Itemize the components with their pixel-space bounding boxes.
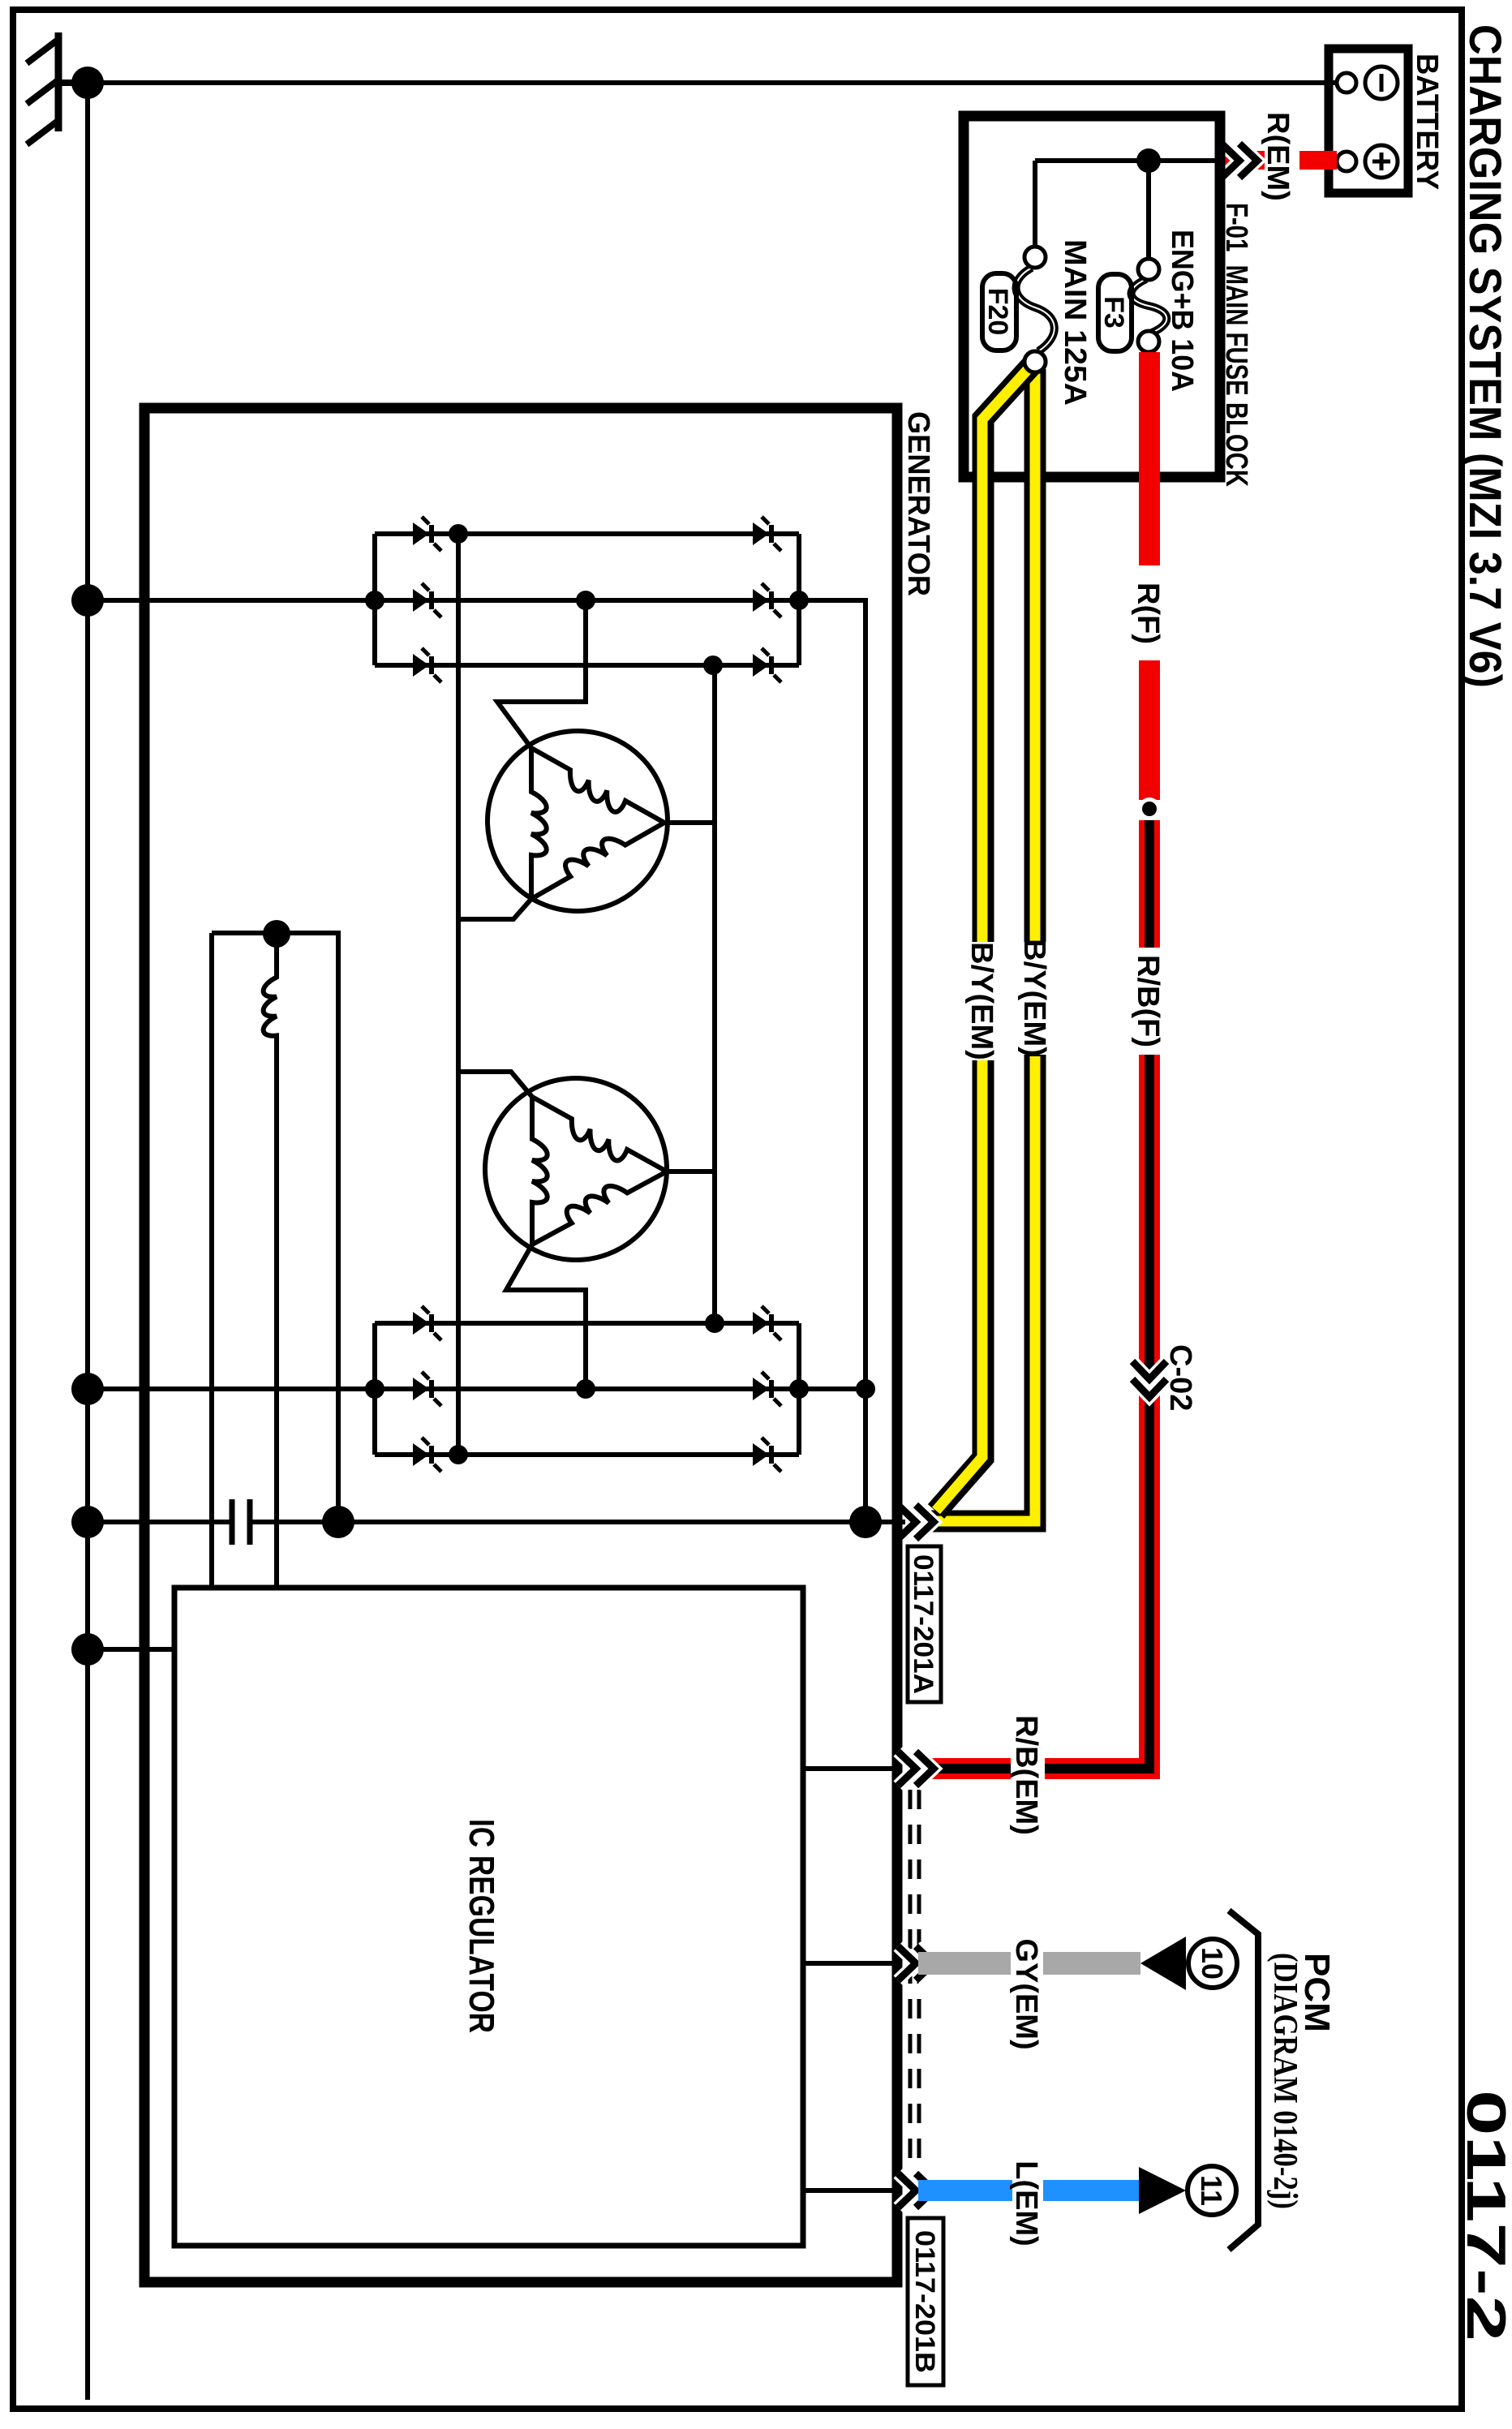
connector chevron GY(EM) [898, 1946, 934, 1980]
wire bridge2 top rail [797, 1323, 801, 1455]
label IC REGULATOR [462, 1819, 501, 2033]
svg-text:R(EM): R(EM) [1261, 112, 1295, 201]
diode bridge2 C upper [753, 1438, 781, 1472]
svg-text:(DIAGRAM 0140-2j): (DIAGRAM 0140-2j) [1266, 1953, 1304, 2209]
wire B/Y(EM) lower segment 2 [936, 1060, 983, 1511]
wire IC regulator ground [88, 1647, 174, 1652]
IC regulator box [174, 1588, 803, 2246]
fuse F3 element [1132, 279, 1167, 333]
connector chevron C-02 [1132, 1361, 1166, 1397]
svg-text:B/Y(EM): B/Y(EM) [1017, 939, 1051, 1057]
stator winding 1 circle [488, 731, 668, 911]
label F-01 MAIN FUSE BLOCK [1219, 203, 1253, 487]
connector dashed line 0117-201 [910, 1790, 919, 2169]
page number 0117-2 [1455, 2090, 1512, 2341]
node bridge1 phase A [449, 524, 468, 544]
wire phase tap y1142 right [506, 1245, 586, 1389]
label GY(EM) [1009, 1938, 1043, 2049]
node fuse block junction [1136, 148, 1161, 173]
title text CHARGING SYSTEM [1460, 24, 1511, 688]
label GENERATOR [901, 411, 935, 596]
diode bridge2 A lower [413, 1306, 441, 1340]
svg-text:11: 11 [1195, 2175, 1228, 2206]
node IC regulator ground junction [71, 1633, 104, 1666]
wire B/Y(EM) upper segment 1 [1024, 369, 1046, 942]
wire tap to stator1 bottom-right [458, 899, 531, 919]
svg-text:GENERATOR: GENERATOR [901, 411, 935, 596]
wire L(EM) lower segment [918, 2180, 1012, 2201]
fuse F20 left terminal [1024, 247, 1046, 268]
diode bridge1 A upper [753, 517, 781, 551]
node bridge2 phase B [576, 1379, 595, 1399]
node bridge2 ground bus junction [71, 1373, 104, 1405]
wire phase tap y983 [712, 665, 717, 1323]
node bridge1 ground bus junction [71, 584, 104, 617]
node bridge2 bottom rail junction [365, 1379, 384, 1399]
fuse F20 right terminal ring [1024, 351, 1046, 372]
node splice on red wire [1138, 797, 1161, 820]
label DIAGRAM 0140-2j [1266, 1953, 1304, 2209]
ground symbol [27, 32, 88, 144]
node bridge1 top rail junction [789, 591, 809, 610]
label box 0117-201A [908, 1546, 941, 1702]
node B+ top junction [849, 1506, 882, 1538]
wire R(EM) upper segment [1299, 151, 1337, 170]
fuse F20 element [1016, 268, 1055, 351]
node bridge2 B+ junction [856, 1379, 875, 1399]
wire R(F) segment 2 [1139, 660, 1160, 800]
svg-text:L(EM): L(EM) [1009, 2160, 1043, 2246]
connector chevron 0117-201A [898, 1505, 934, 1539]
PCM pin 10 circle [1188, 1939, 1237, 1988]
PCM bracket [1229, 1911, 1258, 2250]
stator1 winding left [531, 748, 664, 823]
wire bridge2 to ground bus [88, 1386, 375, 1391]
diode bridge1 B lower [413, 583, 441, 617]
rotor field winding [264, 934, 277, 1079]
wire bridge1 bottom rail [372, 534, 377, 665]
svg-text:F3: F3 [1098, 296, 1129, 329]
svg-text:F20: F20 [982, 288, 1013, 336]
battery label [1410, 54, 1444, 190]
wire bridge1 B+ riser [799, 600, 866, 1522]
wire IC pin GY stub [803, 1961, 902, 1966]
label R(EM) [1261, 112, 1295, 201]
arrow to pin 10 [1140, 1937, 1186, 1990]
wire B+ vertical lower [88, 1520, 230, 1524]
wire B/Y(EM) upper segment 2 [931, 1055, 1035, 1521]
node battery ground junction [71, 67, 104, 99]
diode bridge2 C lower [413, 1438, 441, 1472]
svg-text:B/Y(EM): B/Y(EM) [964, 942, 999, 1060]
label C-02 [1163, 1344, 1197, 1411]
label R(F) [1131, 583, 1165, 644]
fuse F3 left terminal [1138, 259, 1159, 280]
wire tap to stator1 apex [664, 820, 715, 825]
wire bridge2 phase line B [375, 1386, 799, 1391]
label B/Y(EM) upper [1017, 939, 1051, 1057]
battery minus symbol [1365, 67, 1398, 99]
node bridge1 phase C [703, 656, 723, 675]
label MAIN 125A [1058, 239, 1092, 406]
svg-text:BATTERY: BATTERY [1410, 54, 1444, 190]
wire bridge1 phase line A [375, 531, 799, 536]
label box F3 [1098, 274, 1132, 351]
wire rotor left vertical [212, 931, 341, 935]
wire bridge2 B+ riser [799, 1386, 866, 1391]
wire bridge1 to ground bus [88, 598, 375, 603]
node bridge2 phase C [449, 1445, 468, 1464]
wire bridge2 bottom rail [372, 1323, 377, 1455]
wire bridge1 top rail [797, 534, 801, 665]
wire ground bus [85, 83, 90, 2400]
fuse F3 right terminal [1138, 331, 1159, 352]
node bridge1 phase B [576, 591, 595, 610]
label L(EM) [1009, 2160, 1043, 2246]
diode bridge1 A lower [413, 517, 441, 551]
wire junction to fuse F20 [1035, 161, 1149, 248]
fuse F20 right terminal [1024, 351, 1046, 372]
generator box [144, 408, 897, 2282]
diode bridge1 B upper [753, 583, 781, 617]
svg-text:IC REGULATOR: IC REGULATOR [462, 1819, 501, 2033]
node rotor B+ junction [322, 1506, 354, 1538]
wire battery negative to ground bus [88, 80, 1337, 85]
stator winding 2 circle [485, 1078, 667, 1260]
wire R/B(F) segment 2 [1045, 1055, 1149, 1769]
wire IC pin R/B stub [803, 1766, 902, 1771]
connector chevron L(EM) [898, 2173, 934, 2208]
wire rotor coil to IC regulator [274, 1079, 279, 1588]
svg-text:0117-201A: 0117-201A [908, 1554, 939, 1694]
svg-text:R(F): R(F) [1131, 583, 1165, 644]
fuse block F-01 box [964, 116, 1220, 477]
diode bridge2 B lower [413, 1372, 441, 1406]
wire R(F) segment 1 [1139, 352, 1160, 565]
stator1 winding bottom [531, 748, 547, 899]
wire bridge1 phase line C [375, 663, 799, 668]
svg-text:10: 10 [1196, 1947, 1229, 1980]
wire GY(EM) lower segment [918, 1952, 1011, 1975]
svg-text:ENG+B 10A: ENG+B 10A [1165, 230, 1199, 392]
label R/B(EM) [1009, 1715, 1043, 1835]
svg-text:R/B(EM): R/B(EM) [1009, 1715, 1043, 1835]
label B/Y(EM) lower [964, 942, 999, 1060]
wire IC pin L stub [803, 2188, 902, 2193]
battery plus symbol [1365, 145, 1398, 178]
wire bridge2 phase line A [375, 1321, 799, 1326]
svg-text:GY(EM): GY(EM) [1009, 1938, 1043, 2049]
node bridge1 bottom rail junction [365, 591, 384, 610]
svg-text:0117-201B: 0117-201B [909, 2230, 940, 2373]
wire tap to stator2 bottom-left [458, 1072, 532, 1097]
wire R(EM) lower segment [1218, 151, 1265, 170]
diode bridge2 A upper [753, 1306, 781, 1340]
stator2 winding right [532, 1172, 667, 1245]
connector chevron F-01 on R(EM) [1222, 144, 1257, 178]
label box 0117-201B [908, 2218, 943, 2385]
stator1 winding right [531, 823, 664, 899]
battery box [1329, 49, 1408, 193]
wire bridge2 phase line C [375, 1452, 799, 1457]
svg-text:CHARGING SYSTEM (MZI 3.7 V6): CHARGING SYSTEM (MZI 3.7 V6) [1460, 24, 1511, 688]
label box F20 [982, 273, 1016, 350]
wire phase tap y1299 [456, 534, 461, 1455]
wire rotor bottom rail [209, 933, 214, 1588]
wire tap to stator2 apex [667, 1169, 715, 1174]
diode bridge1 C upper [753, 648, 781, 682]
node rotor junction [263, 920, 290, 948]
wire junction to fuse F3 [1146, 161, 1151, 260]
wire B+ vertical upper [252, 1520, 905, 1524]
connector chevron R/B(EM) [898, 1752, 934, 1786]
wire phase tap y1142 left [497, 600, 586, 748]
diode bridge2 B upper [753, 1372, 781, 1406]
wire L(EM) upper segment [1043, 2180, 1139, 2201]
PCM pin 11 circle [1188, 2166, 1236, 2215]
wire bridge1 phase line B [375, 598, 799, 603]
node bridge2 phase A [705, 1313, 724, 1333]
svg-text:MAIN 125A: MAIN 125A [1058, 239, 1092, 406]
label ENG+B 10A [1165, 230, 1199, 392]
stator2 winding left [532, 1097, 667, 1172]
svg-text:R/B(F): R/B(F) [1131, 955, 1165, 1047]
battery positive terminal [1337, 152, 1356, 171]
capacitor C1 [232, 1499, 250, 1545]
label R/B(F) [1131, 955, 1165, 1047]
battery negative terminal [1337, 73, 1356, 92]
wire rotor top rail [336, 933, 341, 1522]
wire fuse block entry [1149, 158, 1215, 163]
svg-text:C-02: C-02 [1163, 1344, 1197, 1411]
wire GY(EM) upper segment [1043, 1952, 1140, 1975]
wire R/B(EM) lower segment [918, 1758, 1011, 1779]
node capacitor ground junction [71, 1506, 104, 1538]
diode bridge1 C lower [413, 648, 441, 682]
node bridge2 top rail junction [789, 1379, 809, 1399]
wire B/Y(EM) lower segment 1 [982, 365, 1032, 942]
stator2 winding bottom [532, 1097, 548, 1245]
wire R/B(F) segment 1 [1139, 820, 1160, 948]
label PCM [1297, 1953, 1337, 2032]
arrow to pin 11 [1139, 2167, 1186, 2214]
